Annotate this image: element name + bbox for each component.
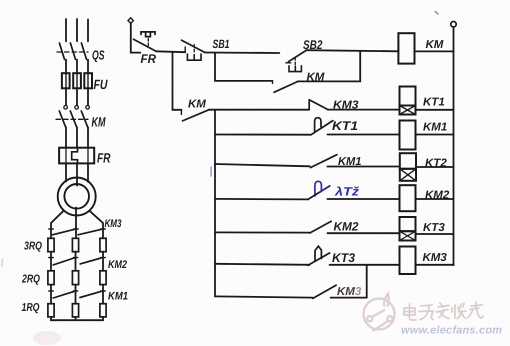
wire L1 mid2 bbox=[65, 88, 67, 105]
row1 wire right bbox=[328, 109, 400, 111]
resistor 2RQ-3 bbox=[100, 271, 106, 285]
contact KT1 delay symbol bbox=[315, 118, 321, 132]
blue ink smudge on rail bbox=[210, 167, 212, 176]
pushbutton SB1 terminal tick bbox=[184, 47, 186, 52]
row3 wire right bbox=[327, 166, 399, 168]
row6 wire to bus bbox=[416, 264, 454, 266]
SB2 actuator stem dashed bbox=[294, 58, 296, 71]
wire SB1 to SB2 bbox=[205, 52, 280, 55]
left rail bbox=[214, 110, 216, 297]
KM2 bridge blade 1 bbox=[53, 258, 74, 265]
KM aux terminal tick bbox=[272, 81, 274, 84]
motor M inner circle bbox=[64, 184, 89, 209]
resistor 1RQ-3 bbox=[100, 304, 106, 317]
relay coil KT1 box bbox=[400, 87, 416, 106]
contact KM3 NC bar bbox=[308, 100, 310, 110]
contactor KM rail contact wire bbox=[173, 109, 182, 111]
resistor 3RQ-2 bbox=[72, 238, 78, 251]
row5 wire to bus bbox=[416, 233, 454, 235]
contactor KM aux contact blade bbox=[274, 81, 298, 92]
motor M outer circle bbox=[58, 178, 96, 216]
KM3 bridge blade 1 bbox=[53, 229, 75, 235]
relay coil KT2 box bbox=[400, 153, 416, 169]
thermal relay FR heater box bbox=[59, 148, 94, 164]
row2 wire left bbox=[215, 134, 310, 136]
KM1 bridge blade 1 bbox=[53, 291, 74, 298]
row1 wire left bbox=[209, 109, 309, 111]
SB2 blade foot tick bbox=[286, 62, 291, 64]
row2 wire right bbox=[328, 134, 400, 136]
pushbutton SB1 blade bbox=[182, 40, 205, 52]
contact KM2 blade bbox=[310, 221, 331, 233]
aux branch down from main wire bbox=[215, 53, 273, 81]
row5 wire left bbox=[215, 231, 309, 233]
KM rail contact tick bbox=[180, 110, 182, 115]
coil KM bbox=[398, 33, 414, 63]
rotor lead right bbox=[90, 211, 104, 239]
KM1 bridge contact ticks bbox=[49, 290, 105, 292]
right bus wire bbox=[453, 27, 455, 265]
wire L1 top bbox=[65, 19, 67, 41]
FR heater element jog bbox=[72, 148, 78, 164]
KM2 bridge blade 2 bbox=[80, 258, 101, 264]
wire L3 to motor bbox=[87, 163, 89, 181]
fuse FU 3 bbox=[84, 73, 92, 88]
KM linkage dashed bbox=[56, 118, 88, 120]
wire resistor column 1b bbox=[50, 285, 52, 304]
fuse FU 1 bbox=[62, 73, 70, 88]
wire L3 mid3 bbox=[87, 127, 89, 147]
contact KM1 blade bbox=[310, 155, 337, 168]
wire resistor column 3b bbox=[102, 285, 104, 304]
row4 wire right bbox=[327, 198, 399, 200]
row3 wire left bbox=[215, 164, 310, 166]
bottom bus wire bbox=[51, 317, 103, 320]
wire resistor column 1a bbox=[50, 252, 52, 271]
coil KM2 bbox=[400, 185, 416, 211]
wire L3 mid2 bbox=[87, 88, 89, 105]
wire resistor column 3a bbox=[102, 252, 104, 271]
FR NC contact blade bbox=[134, 39, 156, 51]
wire L2 mid2 bbox=[76, 88, 78, 105]
contactor KM main pole 3 bbox=[81, 106, 89, 128]
relay coil KT1 delay box bbox=[400, 106, 416, 115]
wire L1 mid1 bbox=[65, 60, 67, 74]
coil KM1 bbox=[400, 121, 416, 150]
resistor 3RQ-3 bbox=[100, 238, 106, 251]
row3 wire to bus bbox=[416, 166, 454, 168]
coil KM3 bbox=[400, 247, 416, 275]
wire L1 to motor bbox=[65, 163, 67, 181]
row4 wire to bus bbox=[416, 198, 454, 200]
fuse FU 2 bbox=[73, 73, 81, 88]
wire FR to SB1 bbox=[156, 50, 185, 53]
bus terminal circle bbox=[451, 22, 456, 27]
wire L3 top bbox=[87, 20, 89, 42]
row6 wire left bbox=[215, 264, 310, 265]
blue ink tip bbox=[320, 186, 329, 192]
KM1 bridge blade 2 bbox=[80, 291, 101, 297]
wire L3 mid1 bbox=[87, 60, 89, 74]
resistor 3RQ-1 bbox=[48, 238, 54, 251]
SB1 actuator stem dashed bbox=[193, 45, 195, 54]
relay coil KT2 delay box bbox=[400, 169, 416, 181]
switch QS pole 2 bbox=[70, 43, 75, 59]
wire KM coil to bus bbox=[415, 50, 454, 52]
wire L2 mid1 bbox=[76, 60, 78, 74]
wire L2 mid3 bbox=[76, 127, 78, 147]
row2 wire to bus bbox=[416, 134, 454, 136]
tick mark near bus top bbox=[435, 12, 438, 15]
wire SB2 to KM coil bbox=[307, 50, 399, 51]
wire resistor column 2b bbox=[75, 285, 77, 304]
SB1 actuator cup bbox=[187, 54, 201, 60]
contact KT3 delay symbol bbox=[315, 246, 321, 260]
contactor KM main pole 1 bbox=[59, 106, 67, 128]
relay coil KT3 box bbox=[400, 217, 416, 231]
node L terminal diamond bbox=[128, 18, 133, 24]
contact KT3 blade bbox=[308, 253, 330, 265]
wire from diamond down bbox=[131, 23, 141, 52]
junction rail FR-SB1 down bbox=[172, 52, 174, 109]
KM3 bridge blade 2 bbox=[78, 229, 102, 235]
resistor 2RQ-1 bbox=[48, 271, 54, 285]
FR thermal release symbol bbox=[141, 32, 155, 37]
wire through FR 1 bbox=[65, 148, 67, 164]
resistor 1RQ-2 bbox=[72, 304, 78, 317]
switch QS pole 1 bbox=[59, 43, 64, 59]
rotor lead left bbox=[51, 211, 64, 239]
row1 wire to bus bbox=[416, 109, 454, 111]
row7 wire right bbox=[331, 297, 367, 299]
contact KT1 blade bbox=[311, 121, 333, 135]
row7 wire left bbox=[215, 296, 312, 297]
contact KT2 delay symbol blue bbox=[315, 181, 322, 196]
contact KT2 blade bbox=[308, 186, 330, 200]
SB2 actuator cup bbox=[289, 66, 301, 72]
contact KM3 self-hold blade bbox=[313, 285, 336, 298]
row4 wire left bbox=[215, 198, 308, 201]
wire through FR 3 bbox=[87, 148, 89, 164]
FR release dashed stem bbox=[147, 39, 149, 46]
wire L1 mid3 bbox=[65, 127, 67, 147]
KM2 bridge contact ticks bbox=[49, 257, 105, 259]
QS linkage dashed bbox=[57, 51, 88, 53]
switch QS pole 3 bbox=[81, 43, 86, 59]
rotor lead mid bbox=[75, 208, 77, 239]
wire L2 top bbox=[76, 19, 78, 41]
row6 wire right bbox=[330, 264, 400, 266]
row5 wire right bbox=[328, 232, 400, 234]
wire L2 to motor bbox=[76, 163, 78, 185]
wire KM aux to riser bbox=[298, 51, 361, 81]
KM3 bridge contact ticks bbox=[49, 228, 105, 230]
contact KM3 NC blade bbox=[309, 100, 328, 110]
wire resistor column 2a bbox=[75, 252, 77, 271]
contactor KM main pole 2 bbox=[70, 106, 78, 128]
relay coil KT3 delay box bbox=[400, 231, 416, 240]
row7 riser to row6 bbox=[366, 265, 368, 298]
resistor 2RQ-2 bbox=[72, 271, 78, 285]
pushbutton SB2 blade bbox=[288, 50, 306, 62]
resistor 1RQ-1 bbox=[48, 304, 54, 317]
KM rail contact blade bbox=[183, 110, 209, 121]
